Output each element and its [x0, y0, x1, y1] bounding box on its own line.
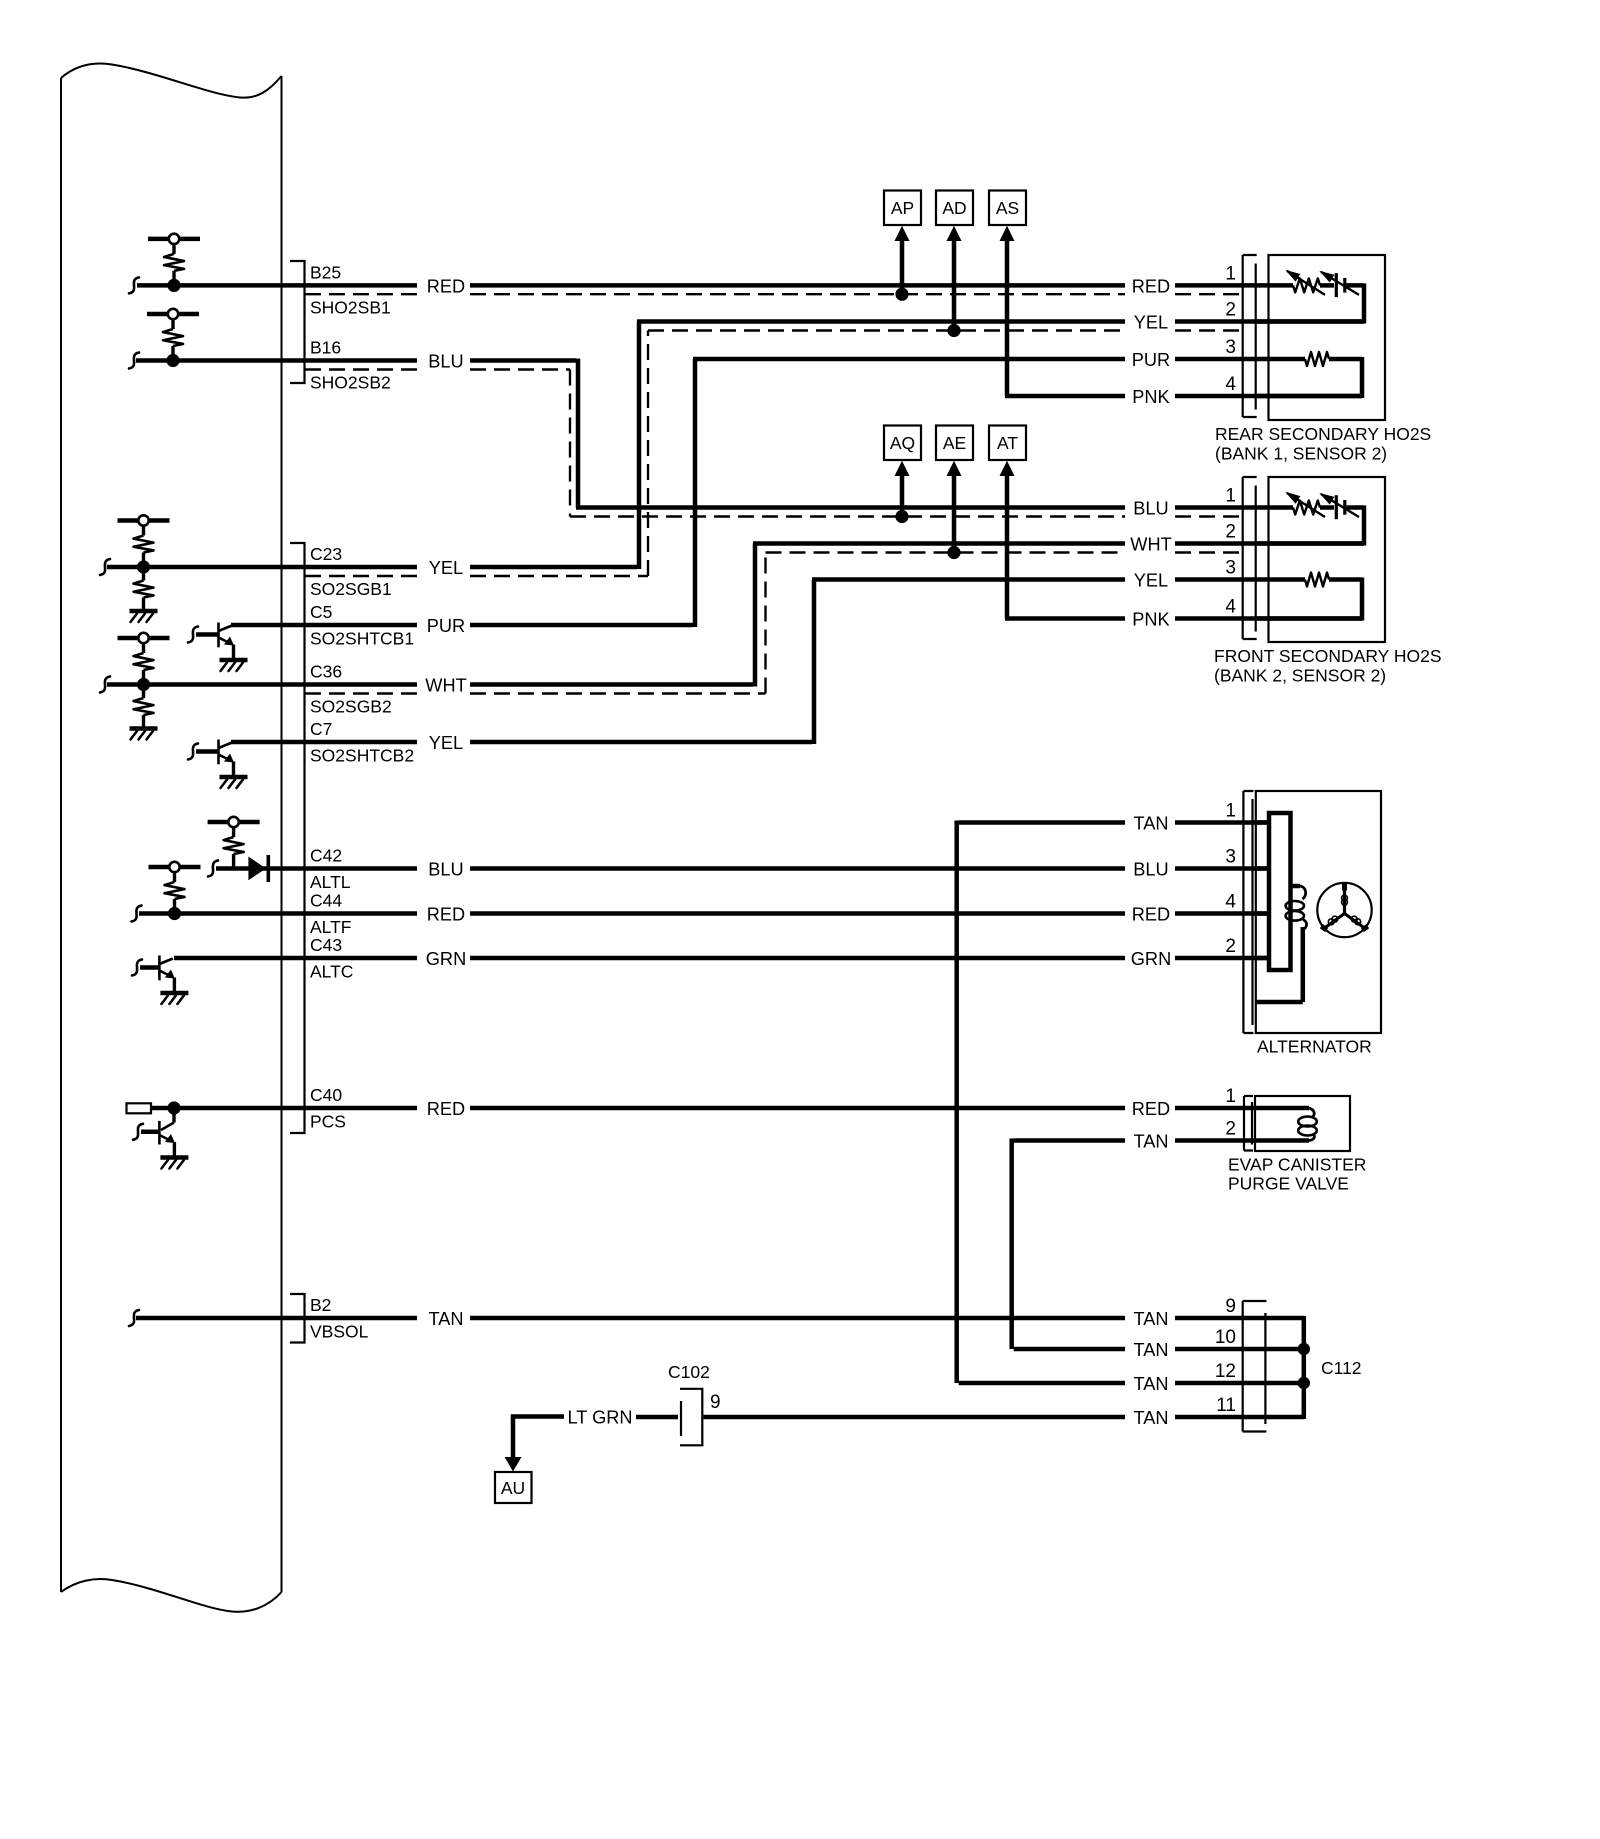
alternator: [1256, 791, 1381, 1057]
svg-text:TAN: TAN: [1133, 1340, 1168, 1360]
test point box AT: [989, 426, 1026, 461]
connector, EVAP canister purge valve: [1244, 1096, 1253, 1151]
pull-up resistor at ECM pin C44: [149, 862, 201, 920]
test point box AQ: [884, 426, 921, 461]
connector C112: [1243, 1301, 1267, 1432]
svg-text:RED: RED: [1132, 905, 1170, 925]
svg-text:3: 3: [1225, 337, 1236, 358]
test point box AU with arrow: [495, 1417, 532, 1503]
driver transistor at ECM pin C7: [188, 740, 248, 789]
svg-text:12: 12: [1215, 1361, 1236, 1382]
svg-text:BLU: BLU: [1133, 499, 1168, 519]
test point box AS: [989, 191, 1026, 226]
wire B16 BLU (ECM B16 to front HO2S pin 1): [129, 353, 1269, 517]
arrow AT (PNK wire): [1000, 461, 1015, 476]
svg-text:TAN: TAN: [1133, 1132, 1168, 1152]
wire colour labels (component side): [1130, 276, 1171, 1428]
svg-text:C43: C43: [310, 935, 342, 955]
wire TAN (EVAP purge valve pin 2 to C112 pin 10): [1012, 1139, 1309, 1350]
svg-text:LT GRN: LT GRN: [567, 1408, 632, 1428]
arrow AP to RED wire junction: [895, 226, 910, 301]
svg-text:FRONT SECONDARY HO2S: FRONT SECONDARY HO2S: [1214, 646, 1442, 666]
svg-text:(BANK 2, SENSOR 2): (BANK 2, SENSOR 2): [1214, 666, 1386, 686]
wire TAN (alternator pin 1 to C112 pin 12): [957, 821, 1304, 1384]
svg-text:RED: RED: [427, 1099, 465, 1119]
svg-text:ALTERNATOR: ALTERNATOR: [1257, 1037, 1372, 1057]
driver transistor at ECM pin C5: [188, 623, 248, 672]
svg-text:YEL: YEL: [1134, 313, 1168, 333]
wire PNK (AT to front HO2S pin 4): [1005, 476, 1362, 619]
svg-text:AP: AP: [891, 198, 914, 218]
wire LT GRN (AU to C102): [513, 1417, 678, 1420]
wire C7 YEL (ECM C7 to front HO2S pin 3): [231, 580, 1269, 745]
svg-text:TAN: TAN: [1133, 1309, 1168, 1329]
svg-text:4: 4: [1225, 374, 1236, 395]
svg-text:BLU: BLU: [428, 352, 463, 372]
svg-text:VBSOL: VBSOL: [310, 1322, 369, 1342]
connector pin numbers: [1215, 263, 1237, 1416]
ECM pin bracket C23-C40: [290, 543, 305, 1133]
svg-text:WHT: WHT: [425, 676, 466, 696]
svg-text:AQ: AQ: [890, 433, 915, 453]
svg-text:TAN: TAN: [1133, 814, 1168, 834]
svg-text:B25: B25: [310, 262, 341, 282]
connector, alternator: [1243, 791, 1253, 1033]
pull-up resistor at ECM pin B16: [147, 309, 199, 367]
arrow AS (PNK wire): [1000, 226, 1015, 241]
svg-text:TAN: TAN: [1133, 1408, 1168, 1428]
svg-text:B16: B16: [310, 338, 341, 358]
wire C36 WHT (ECM C36 to front HO2S pin 2): [100, 544, 1364, 694]
svg-text:AE: AE: [943, 433, 966, 453]
svg-text:GRN: GRN: [426, 949, 466, 969]
svg-text:RED: RED: [427, 905, 465, 925]
svg-text:AU: AU: [501, 1478, 525, 1498]
svg-text:4: 4: [1225, 892, 1236, 913]
svg-text:SO2SGB2: SO2SGB2: [310, 696, 392, 716]
test point box AE: [936, 426, 973, 461]
svg-text:YEL: YEL: [429, 733, 463, 753]
driver transistor at ECM pin C43: [132, 956, 188, 1005]
svg-text:C7: C7: [310, 719, 332, 739]
svg-text:ALTF: ALTF: [310, 917, 352, 937]
svg-text:WHT: WHT: [1130, 535, 1171, 555]
svg-text:RED: RED: [427, 276, 465, 296]
svg-text:9: 9: [710, 1392, 721, 1413]
driver transistor and junction at ECM pin C40: [127, 1101, 189, 1168]
svg-text:2: 2: [1225, 1119, 1236, 1140]
wire B2 TAN (ECM B2 to C112 pin 9): [129, 1310, 1304, 1326]
svg-text:9: 9: [1225, 1296, 1236, 1317]
pull-up resistor at ECM pin B25: [148, 234, 200, 292]
wire C5 PUR (ECM C5 to rear HO2S pin 3): [231, 359, 1269, 627]
wire colour labels (ECM side): [425, 276, 632, 1427]
svg-text:AD: AD: [942, 198, 966, 218]
svg-text:C44: C44: [310, 891, 342, 911]
pull-up resistor and diode at ECM pin C42: [208, 817, 269, 882]
svg-text:1: 1: [1225, 801, 1236, 822]
svg-text:RED: RED: [1132, 276, 1170, 296]
wire TAN (C102 to C112 pin 11): [704, 1415, 1304, 1420]
svg-text:C102: C102: [668, 1362, 710, 1382]
ECM pin bracket B2: [290, 1294, 305, 1343]
svg-text:ALTL: ALTL: [310, 872, 351, 892]
svg-text:2: 2: [1225, 300, 1236, 321]
svg-text:2: 2: [1225, 936, 1236, 957]
test point box AP: [884, 191, 921, 226]
svg-text:4: 4: [1225, 597, 1236, 618]
svg-text:BLU: BLU: [428, 860, 463, 880]
wire PNK (AS to rear HO2S pin 4): [1005, 241, 1362, 396]
connector, rear secondary HO2S: [1243, 255, 1257, 417]
svg-text:SHO2SB1: SHO2SB1: [310, 297, 391, 317]
svg-text:C5: C5: [310, 602, 332, 622]
svg-text:TAN: TAN: [428, 1309, 463, 1329]
svg-text:C36: C36: [310, 662, 342, 682]
test point box AD: [936, 191, 973, 226]
ECM pin labels: [310, 262, 414, 1341]
svg-text:PNK: PNK: [1132, 610, 1169, 630]
wire C23 YEL (ECM C23 to rear HO2S pin 2): [100, 322, 1364, 577]
svg-text:3: 3: [1225, 847, 1236, 868]
front secondary HO2S (bank 2, sensor 2): [1214, 477, 1442, 686]
svg-text:SHO2SB2: SHO2SB2: [310, 372, 391, 392]
svg-text:1: 1: [1225, 486, 1236, 507]
svg-text:PUR: PUR: [1132, 350, 1170, 370]
svg-text:SO2SGB1: SO2SGB1: [310, 579, 392, 599]
svg-text:1: 1: [1225, 1086, 1236, 1107]
svg-text:YEL: YEL: [429, 558, 463, 578]
svg-text:AT: AT: [997, 433, 1018, 453]
svg-text:TAN: TAN: [1133, 1374, 1168, 1394]
rear secondary HO2S (bank 1, sensor 2): [1215, 255, 1431, 464]
wire B25 RED (ECM B25 to rear HO2S pin 1): [129, 277, 1269, 294]
svg-text:10: 10: [1215, 1327, 1236, 1348]
svg-text:C23: C23: [310, 544, 342, 564]
svg-text:SO2SHTCB2: SO2SHTCB2: [310, 746, 414, 766]
svg-text:B2: B2: [310, 1295, 331, 1315]
arrow AQ to BLU wire junction: [895, 461, 910, 523]
svg-text:(BANK 1, SENSOR 2): (BANK 1, SENSOR 2): [1215, 444, 1387, 464]
arrow AD to YEL wire junction: [947, 226, 962, 337]
svg-text:AS: AS: [996, 198, 1019, 218]
svg-text:EVAP CANISTER: EVAP CANISTER: [1228, 1155, 1366, 1175]
svg-text:2: 2: [1225, 522, 1236, 543]
wire C40 RED (ECM C40 to EVAP purge valve pin 1): [150, 1106, 1309, 1111]
svg-text:11: 11: [1216, 1395, 1236, 1416]
connector C102: [668, 1362, 721, 1445]
EVAP canister purge valve: [1228, 1096, 1366, 1194]
svg-text:RED: RED: [1132, 1099, 1170, 1119]
wire C43 GRN (ECM C43 to alternator pin 2): [174, 956, 1270, 961]
resistor divider at ECM pin C23: [118, 515, 170, 622]
ECM pin bracket B25/B16: [290, 261, 305, 383]
svg-text:C40: C40: [310, 1085, 342, 1105]
ECM connector body (torn-edge outline): [61, 63, 282, 1611]
svg-text:GRN: GRN: [1131, 949, 1171, 969]
arrow AE to WHT wire junction: [947, 461, 962, 559]
connector, front secondary HO2S: [1243, 477, 1257, 639]
resistor divider at ECM pin C36: [118, 633, 170, 740]
svg-text:REAR SECONDARY HO2S: REAR SECONDARY HO2S: [1215, 424, 1431, 444]
wire C42 BLU (ECM C42 to alternator pin 3): [208, 861, 1270, 877]
svg-text:YEL: YEL: [1134, 571, 1168, 591]
svg-text:PNK: PNK: [1132, 387, 1169, 407]
svg-text:PCS: PCS: [310, 1112, 346, 1132]
svg-text:3: 3: [1225, 558, 1236, 579]
svg-text:C42: C42: [310, 846, 342, 866]
C112 joint bus: [1298, 1316, 1362, 1419]
svg-text:SO2SHTCB1: SO2SHTCB1: [310, 629, 414, 649]
svg-text:ALTC: ALTC: [310, 962, 353, 982]
svg-text:BLU: BLU: [1133, 860, 1168, 880]
svg-text:1: 1: [1225, 263, 1236, 284]
svg-text:C112: C112: [1321, 1358, 1362, 1378]
svg-text:PURGE VALVE: PURGE VALVE: [1228, 1174, 1349, 1194]
wire C44 RED (ECM C44 to alternator pin 4): [132, 906, 1270, 922]
svg-text:PUR: PUR: [427, 616, 465, 636]
